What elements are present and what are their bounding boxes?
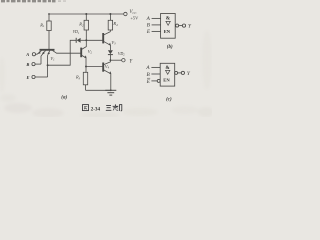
resistor R3 [83,72,87,85]
diode VD1 cathode bar [75,38,77,43]
svg-text:2-34: 2-34 [91,106,101,112]
transistor V4 base bar [102,63,104,72]
junction node E line [47,64,49,66]
symbol (b) box [161,14,176,39]
resistor R2 leads [85,14,87,20]
transistor V1 base bar [40,49,55,51]
paper mottling bottom [0,30,214,118]
glyph 态 [113,104,119,110]
labels of circuit (a) [25,10,139,101]
transistor V1 emitter to B [41,51,46,56]
symbol (c) input A wire [151,66,160,68]
symbol (b) nabla sign [166,21,170,25]
wire output node to Y [110,59,121,61]
svg-text:A: A [25,52,29,57]
symbol (c) input E wire [151,80,157,82]
svg-text:E: E [26,75,30,80]
symbol (c) output wire [178,72,182,74]
paper background [0,0,212,117]
ground symbol [105,89,116,91]
transistor V4 collector [103,60,110,65]
transistor V4 emitter [103,70,111,91]
symbol (b) input E wire [152,30,161,32]
svg-text:(b): (b) [167,45,173,50]
svg-text:EN: EN [164,29,171,34]
svg-text:B: B [25,62,29,67]
junction node rail-R2 [85,13,87,15]
svg-text:&: & [166,15,171,21]
symbol (b) output wire [179,25,183,27]
resistor R2 [84,20,88,30]
wire E to diode (enable line) [48,40,77,65]
wire B riser [40,56,42,64]
svg-text:VCC: VCC [130,10,138,15]
transistor V2 base bar [80,48,82,58]
svg-text:(c): (c) [166,97,172,102]
junction node rail-R4 [109,13,111,15]
input E terminal [32,75,35,78]
symbol (b) output terminal [182,24,185,27]
resistor R1 leads [48,14,50,21]
arrow V1 emitter B [42,52,45,55]
svg-text:&: & [165,65,170,71]
junction node ground bus [110,89,112,91]
junction node V2 collector / diode [85,39,87,41]
glyph 三 [106,106,112,111]
figure caption 图 2-34 三态门 (drawn glyphs) [83,105,89,111]
symbol (c) output bubble [175,71,178,74]
arrow V1 emitter A [38,51,41,54]
wire ground bus [86,89,111,91]
arrow V4 emitter [109,71,111,74]
junction node rail-R1 [48,13,50,15]
input E wire [35,76,48,78]
resistor R1 [47,21,51,31]
symbol (c) input E bubble [157,79,160,82]
glyph 图 [83,105,89,111]
wire E riser [47,56,49,78]
wire: VCC rail [49,13,123,15]
junction node V2 emitter / V4 base [85,66,87,68]
transistor V3 collector [103,32,110,36]
transistor V3 emitter [103,41,110,50]
transistor V3 base bar [102,33,104,43]
transistor V1 emitter to E [48,51,50,56]
transistor V1 collector to V2 base [53,51,82,54]
VCC terminal [124,12,127,15]
symbol (b) input A wire [152,17,161,19]
junction node output [110,59,112,61]
svg-text:(a): (a) [61,95,67,100]
wire diode anode to node [81,39,87,41]
diode VD2 triangle [108,50,113,54]
resistor R4 [108,20,112,30]
resistor R4 leads [109,14,111,20]
wire node to V3 base [86,39,103,41]
symbol (c) input B wire [151,73,160,75]
cut-off text remnants at top edge [1,0,66,2]
symbol (c) nabla sign [166,70,170,74]
logic symbol (c) [147,63,184,86]
glyph 门 [119,104,122,111]
diode VD2 cathode bar [108,54,113,56]
wire VD2 to output node [109,55,111,61]
arrow V3 emitter [109,43,111,46]
logic symbol (b) [152,14,186,39]
input A terminal [32,53,35,56]
input B wire [35,63,41,65]
transistor V2 collector [81,40,86,49]
symbol (c) output terminal [181,71,184,74]
resistor R3 leads [85,71,88,73]
arrow V2 emitter [84,55,86,58]
transistor V1 emitter to A [37,51,41,55]
transistor V2 emitter [81,55,86,72]
symbol (b) output bubble [176,24,179,27]
symbol (b) input B wire [152,24,161,26]
output Y terminal [122,59,125,62]
input B terminal [32,63,35,66]
svg-text:EN: EN [163,78,170,83]
symbol (c) box [160,63,175,86]
symbol (c) label E overbar [147,77,150,79]
transistor V4 base wire from V2 emitter [86,66,103,68]
diode VD1 triangle [77,38,81,43]
arrow V1 emitter E [47,52,50,55]
svg-text:+5V: +5V [131,16,140,21]
input A wire [36,53,38,55]
